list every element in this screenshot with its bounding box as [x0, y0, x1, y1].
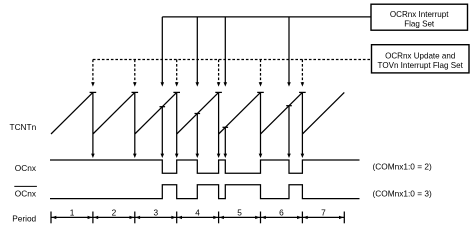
svg-text:Period: Period: [12, 214, 36, 224]
svg-text:OCnx: OCnx: [15, 188, 37, 198]
TCNTn ramp 5: [219, 92, 261, 134]
peak tick TOP 2: [132, 91, 139, 93]
arrow: counter reset at TOP 2 down to OCnx: [133, 92, 137, 158]
compare match tick 3 on ramp: [160, 106, 166, 108]
period tick 5: [260, 212, 262, 224]
arrow: OCRnx interrupt flag set, compare match 4: [196, 17, 200, 87]
svg-text:(COMnx1:0 = 2): (COMnx1:0 = 2): [373, 162, 432, 172]
peak tick TOP 5: [257, 91, 264, 93]
compare match tick 6 on ramp: [286, 105, 292, 107]
svg-text:Flag Set: Flag Set: [404, 20, 435, 29]
OCnx-bar output waveform (COMnx1:0 = 3): [50, 185, 360, 199]
peak tick TOP 1: [90, 91, 97, 93]
svg-text:2: 2: [112, 207, 117, 217]
period arrowheads segment 6: [261, 216, 302, 219]
period arrowheads segment 7: [303, 216, 344, 219]
OCnx output waveform (COMnx1:0 = 2): [50, 160, 360, 173]
arrow: compare match 5 down to OCnx: [224, 127, 228, 158]
svg-text:7: 7: [321, 207, 326, 217]
svg-text:5: 5: [237, 207, 242, 217]
period tick 4: [218, 212, 220, 224]
arrow: dashed, OCRnx update / TOVn flag at TOP 1: [91, 60, 95, 87]
arrow: OCRnx interrupt flag set, compare match 3: [161, 17, 165, 87]
period dimension line: [51, 216, 344, 218]
arrow: compare match 6 down to OCnx: [287, 106, 291, 158]
arrow: dashed, OCRnx update / TOVn flag at TOP 6: [301, 60, 305, 87]
box: OCRnx Update and TOVn Interrupt Flag Set: [372, 45, 470, 73]
arrow: dashed, OCRnx update / TOVn flag at TOP 2: [133, 60, 137, 87]
svg-text:(COMnx1:0 = 3): (COMnx1:0 = 3): [373, 188, 432, 198]
TCNTn ramp 3: [135, 92, 177, 134]
arrow: dashed, OCRnx update / TOVn flag at TOP 5: [259, 60, 263, 87]
compare match tick 4 on ramp: [195, 113, 201, 115]
arrow: counter reset at TOP 6 down to OCnx: [301, 92, 305, 158]
period arrowheads segment 1: [52, 216, 92, 219]
period arrowheads segment 4: [177, 216, 218, 219]
wire: solid line from OCRnx Interrupt Flag Set box: [162, 16, 371, 18]
arrow: OCRnx interrupt flag set, compare match 5: [224, 17, 228, 87]
TCNTn ramp 4: [177, 92, 219, 134]
period tick 0: [50, 212, 52, 224]
period arrowheads segment 2: [94, 216, 135, 219]
TCNTn ramp 1: [51, 92, 93, 134]
arrow: dashed, OCRnx update / TOVn flag at TOP 3: [175, 60, 179, 87]
period tick 7: [343, 212, 345, 224]
arrow: counter reset at TOP 5 down to OCnx: [259, 92, 263, 158]
compare match tick 5 on ramp: [223, 126, 229, 128]
TCNTn ramp 7: [302, 92, 344, 134]
svg-text:OCRnx Interrupt: OCRnx Interrupt: [390, 10, 449, 19]
arrow: counter reset at TOP 4 down to OCnx: [217, 92, 221, 158]
svg-text:3: 3: [153, 207, 158, 217]
period arrowheads segment 5: [219, 216, 259, 219]
arrow: OCRnx interrupt flag set, compare match 6: [287, 17, 291, 87]
arrow: counter reset at TOP 1 down to OCnx: [91, 92, 95, 158]
period arrowheads segment 3: [136, 216, 177, 219]
wire: dashed line from OCRnx Update / TOVn box: [93, 59, 372, 61]
TCNTn ramp 2: [93, 92, 135, 134]
peak tick TOP 3: [173, 91, 180, 93]
svg-text:6: 6: [279, 207, 284, 217]
period tick 1: [92, 212, 94, 224]
arrow: compare match 4 down to OCnx: [196, 114, 200, 159]
svg-text:TCNTn: TCNTn: [10, 122, 37, 132]
svg-text:TOVn Interrupt Flag Set: TOVn Interrupt Flag Set: [378, 61, 464, 70]
peak tick TOP 6: [299, 91, 306, 93]
svg-text:4: 4: [195, 207, 200, 217]
TCNTn ramp 6: [261, 92, 303, 134]
arrow: compare match 3 down to OCnx: [161, 107, 165, 158]
period tick 6: [301, 212, 303, 224]
period tick 2: [134, 212, 136, 224]
label OCnx overline: [14, 186, 37, 198]
peak tick TOP 4: [215, 91, 222, 93]
period tick 3: [176, 212, 178, 224]
svg-text:1: 1: [70, 207, 75, 217]
arrow: counter reset at TOP 3 down to OCnx: [175, 92, 179, 158]
svg-text:OCRnx Update and: OCRnx Update and: [385, 52, 455, 61]
box: OCRnx Interrupt Flag Set: [371, 4, 468, 30]
arrow: dashed, OCRnx update / TOVn flag at TOP 4: [217, 60, 221, 87]
svg-text:OCnx: OCnx: [15, 163, 37, 173]
